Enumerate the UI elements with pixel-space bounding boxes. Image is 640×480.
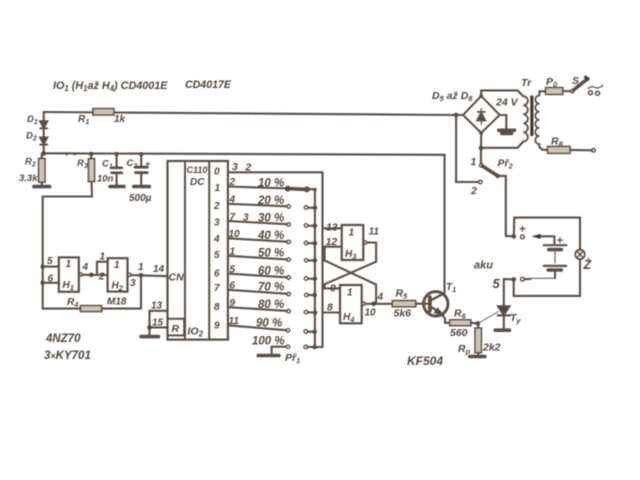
svg-text:C110: C110 bbox=[187, 165, 208, 175]
wire: top rail from D1 to bridge left bbox=[44, 112, 456, 115]
svg-text:+: + bbox=[519, 224, 526, 236]
svg-text:80 %: 80 % bbox=[258, 299, 284, 311]
svg-text:H4: H4 bbox=[343, 312, 355, 324]
wire row 100% to Pr1 ground bbox=[252, 336, 317, 355]
svg-text:13: 13 bbox=[326, 222, 338, 234]
svg-text:R2: R2 bbox=[25, 157, 36, 169]
node: bridge left junction bbox=[454, 113, 459, 118]
title text IO1 (H1 az H4) CD4001E CD4017E bbox=[53, 79, 232, 93]
wire: emitter to R6 bbox=[443, 316, 450, 323]
svg-text:3: 3 bbox=[214, 218, 220, 229]
wire row 20% bbox=[228, 195, 317, 211]
svg-text:C2: C2 bbox=[127, 158, 138, 170]
switch Pr2 blade bbox=[483, 166, 498, 176]
node: H1 input junction dots bbox=[40, 264, 45, 285]
svg-text:2k2: 2k2 bbox=[482, 342, 501, 354]
svg-text:CD4017E: CD4017E bbox=[185, 79, 232, 91]
resistor R4 with feedback wire bbox=[43, 297, 141, 312]
svg-text:1k: 1k bbox=[114, 114, 126, 125]
battery aku cells bbox=[474, 235, 566, 278]
svg-text:7: 7 bbox=[214, 283, 220, 294]
svg-text:15: 15 bbox=[152, 318, 164, 329]
svg-text:0: 0 bbox=[214, 167, 220, 178]
svg-text:4NZ70: 4NZ70 bbox=[45, 333, 81, 345]
svg-text:R5: R5 bbox=[396, 288, 409, 301]
svg-text:IO2: IO2 bbox=[188, 326, 204, 339]
fuse Po bbox=[546, 76, 571, 94]
resistor R3 bbox=[77, 154, 95, 182]
gate H4 bbox=[340, 285, 365, 324]
svg-text:40 %: 40 % bbox=[257, 230, 284, 242]
IC R box bbox=[168, 319, 185, 336]
ground below R2 bbox=[34, 185, 50, 189]
switch Pr2 contact 1 bbox=[471, 156, 514, 171]
svg-text:12: 12 bbox=[326, 236, 338, 248]
svg-text:Tr: Tr bbox=[521, 77, 532, 89]
resistor R5 5k6 bbox=[392, 288, 424, 320]
svg-text:13: 13 bbox=[151, 301, 163, 312]
svg-text:R1: R1 bbox=[78, 114, 89, 126]
ground below C1 bbox=[110, 185, 124, 189]
svg-text:1: 1 bbox=[66, 259, 72, 270]
IC internal column lines bbox=[185, 161, 209, 340]
wire: left drop to diodes bbox=[43, 112, 45, 153]
svg-text:CN: CN bbox=[169, 272, 185, 284]
wire: main bus rail to T1 collector corner bbox=[44, 153, 445, 292]
battery arrow plug bbox=[532, 234, 555, 244]
svg-text:9: 9 bbox=[214, 321, 220, 332]
svg-text:3: 3 bbox=[232, 161, 238, 173]
svg-text:DC: DC bbox=[190, 177, 205, 188]
svg-text:10 %: 10 % bbox=[258, 178, 284, 190]
svg-text:14: 14 bbox=[153, 264, 165, 275]
wire: bus2 bottom tie bbox=[315, 346, 323, 348]
svg-text:2: 2 bbox=[213, 201, 220, 212]
svg-text:5k6: 5k6 bbox=[394, 308, 412, 320]
ground below Ty bbox=[495, 328, 509, 332]
transformer Tr secondary coil bbox=[535, 96, 539, 145]
bridge rectifier D5 az D8 bbox=[432, 90, 519, 135]
svg-text:4: 4 bbox=[229, 195, 236, 206]
svg-text:24 V: 24 V bbox=[495, 97, 519, 109]
svg-text:5: 5 bbox=[230, 264, 236, 275]
svg-text:6: 6 bbox=[48, 274, 54, 285]
svg-text:500µ: 500µ bbox=[129, 193, 152, 204]
svg-text:Rp: Rp bbox=[458, 343, 471, 356]
svg-text:R3: R3 bbox=[77, 158, 88, 170]
svg-text:30 %: 30 % bbox=[258, 213, 284, 225]
svg-text:H2: H2 bbox=[112, 281, 124, 293]
resistor R6 560 bbox=[450, 308, 478, 340]
svg-text:10: 10 bbox=[365, 308, 377, 319]
svg-text:1: 1 bbox=[471, 156, 477, 168]
ground below C2 bbox=[134, 185, 150, 189]
wire: H3 out cross to H4 pin 9 bbox=[325, 243, 377, 289]
svg-text:5: 5 bbox=[47, 256, 53, 267]
svg-text:2: 2 bbox=[470, 185, 477, 197]
svg-text:3: 3 bbox=[130, 278, 136, 289]
wire row 40% bbox=[228, 229, 317, 246]
svg-text:1: 1 bbox=[230, 247, 236, 258]
svg-text:60 %: 60 % bbox=[258, 265, 284, 277]
ground at 24V bbox=[499, 130, 515, 133]
svg-text:1: 1 bbox=[138, 262, 144, 273]
svg-text:4: 4 bbox=[377, 292, 384, 303]
wire row 70% bbox=[228, 281, 317, 298]
transformer Tr primary coil bbox=[523, 96, 528, 141]
diode D2 bbox=[26, 131, 47, 145]
svg-text:9: 9 bbox=[330, 283, 336, 295]
svg-text:T1: T1 bbox=[446, 282, 456, 294]
svg-text:6: 6 bbox=[214, 269, 220, 280]
svg-text:P0: P0 bbox=[546, 76, 558, 89]
svg-text:9: 9 bbox=[230, 298, 236, 309]
IC text C110 DC bbox=[169, 165, 221, 339]
svg-text:8: 8 bbox=[327, 302, 333, 314]
svg-text:R4: R4 bbox=[67, 297, 79, 309]
IC IO2 outer box bbox=[168, 161, 228, 340]
wire: battery bottom to terminal 5 bbox=[531, 277, 555, 279]
wire: H3 pin 13 from bus2 bbox=[323, 227, 342, 229]
svg-text:1: 1 bbox=[347, 288, 353, 299]
svg-text:4: 4 bbox=[82, 262, 89, 273]
svg-text:3.3k: 3.3k bbox=[19, 173, 38, 184]
wire: secondary bottom to R8 bbox=[539, 144, 547, 150]
capacitor C1 bbox=[97, 154, 122, 186]
wire row 90% bbox=[228, 316, 317, 334]
svg-text:Ty: Ty bbox=[510, 312, 521, 325]
svg-text:50 %: 50 % bbox=[258, 247, 284, 259]
wire row 30% bbox=[228, 212, 317, 228]
ground Pr1 bbox=[258, 352, 300, 365]
diode D1 bbox=[27, 114, 47, 128]
wire: selector bus 1 bbox=[314, 189, 316, 347]
svg-text:20 %: 20 % bbox=[257, 195, 284, 207]
capacitor C2 500u bbox=[127, 154, 152, 204]
wire row 50% bbox=[228, 247, 317, 263]
gate H1 bbox=[47, 256, 82, 292]
wire row 10% with wiper bar bbox=[228, 177, 317, 192]
svg-text:H3: H3 bbox=[345, 249, 357, 261]
wire: H4 pin 8 from bus2 bbox=[323, 311, 341, 313]
svg-text:D2: D2 bbox=[26, 131, 37, 143]
lamp Z bbox=[575, 250, 592, 272]
wire: bridge bottom down to node 1 junction bbox=[480, 133, 482, 163]
node: R6/Rp/gate junction bbox=[476, 321, 481, 326]
svg-text:R6: R6 bbox=[454, 308, 467, 321]
thyristor Ty bbox=[498, 279, 522, 329]
diode symbol inside bridge bbox=[477, 113, 485, 120]
ground for pins 13/15 bbox=[141, 335, 159, 339]
svg-text:C1: C1 bbox=[102, 159, 113, 171]
text KF504 bbox=[407, 354, 443, 368]
wire: H2 out to IC pin 14 (CN) bbox=[131, 275, 168, 276]
node: tie dot bbox=[147, 301, 163, 330]
node: bottom bridge junction bbox=[479, 146, 484, 151]
wire: H1 out to H2 inputs with jog bbox=[82, 262, 107, 275]
wire: H1 pin 6 bbox=[43, 282, 59, 284]
terminal 5 bbox=[493, 276, 531, 291]
node: aku plus junction bbox=[512, 234, 517, 239]
svg-text:D1: D1 bbox=[27, 114, 38, 126]
transformer core bbox=[530, 95, 533, 136]
wire: H3 pin 12 from cross-coupling bbox=[325, 247, 342, 261]
wire: lamp loop top bbox=[514, 218, 580, 250]
wire: gate to thyristor bbox=[480, 312, 499, 323]
svg-text:M18: M18 bbox=[107, 297, 127, 308]
node: H4 output labels 10 4 bbox=[365, 292, 384, 319]
svg-text:560: 560 bbox=[450, 327, 468, 339]
svg-text:90 %: 90 % bbox=[256, 318, 282, 330]
svg-text:70 %: 70 % bbox=[258, 282, 284, 294]
svg-text:1: 1 bbox=[215, 183, 221, 194]
text 4NZ70 bbox=[44, 333, 91, 362]
svg-text:6: 6 bbox=[230, 281, 236, 292]
svg-text:100 %: 100 % bbox=[252, 336, 285, 348]
wire row 80% bbox=[228, 298, 317, 315]
wire: secondary top to fuse Po bbox=[539, 91, 545, 95]
wire row 60% bbox=[228, 264, 317, 281]
mains scribble 6V bbox=[588, 85, 603, 88]
svg-text:D5 až D8: D5 až D8 bbox=[432, 90, 473, 103]
resistor R2 bbox=[19, 153, 45, 186]
wire: feedback drop to R4 row bbox=[140, 275, 142, 308]
svg-text:4: 4 bbox=[213, 234, 220, 245]
wire: terminal 5 to thyristor anode bbox=[504, 278, 514, 280]
svg-text:8: 8 bbox=[214, 302, 220, 313]
svg-text:11: 11 bbox=[369, 227, 380, 238]
wire: bridge right to 24V ground bbox=[500, 115, 507, 129]
node: H2 output junction, labels 3 1 14 bbox=[130, 262, 165, 289]
svg-text:+: + bbox=[145, 159, 151, 169]
svg-text:10n: 10n bbox=[97, 174, 114, 185]
gate H3 bbox=[342, 225, 367, 261]
ground below Rp bbox=[470, 355, 485, 359]
wire: blade to aku plus junction bbox=[498, 176, 514, 237]
wire: H4 out to R5 bbox=[365, 303, 392, 305]
node: bus junction dots bbox=[41, 151, 143, 156]
svg-text:2: 2 bbox=[98, 272, 105, 283]
wire: H4 out cross to H3 pin 12 bbox=[325, 247, 377, 304]
svg-text:1: 1 bbox=[100, 252, 106, 263]
resistor R1 bbox=[78, 109, 126, 126]
svg-text:Př1: Př1 bbox=[285, 352, 300, 365]
wire: pin 15 to ground tie bbox=[150, 326, 168, 328]
wire: lamp loop bottom bbox=[514, 259, 580, 296]
resistor Rp 2k2 bbox=[458, 323, 501, 356]
wire: 13/15 tie vertical to ground bbox=[148, 311, 150, 336]
switch Pr2 contact 2 wire bbox=[456, 115, 482, 197]
node: blade end dot bbox=[496, 174, 500, 178]
svg-text:Př2: Př2 bbox=[498, 158, 514, 171]
wire: pin 13 to ground tie bbox=[150, 310, 168, 312]
svg-text:3: 3 bbox=[243, 213, 249, 224]
svg-text:3×KY701: 3×KY701 bbox=[44, 350, 91, 362]
svg-text:2: 2 bbox=[245, 162, 252, 174]
svg-text:1: 1 bbox=[114, 260, 120, 271]
svg-text:H1: H1 bbox=[63, 280, 74, 292]
svg-text:5: 5 bbox=[493, 276, 501, 291]
terminal plus circle bbox=[519, 224, 526, 239]
wire: R3 bottom to H1 column bbox=[43, 182, 92, 309]
svg-text:KF504: KF504 bbox=[407, 354, 443, 368]
svg-text:R8: R8 bbox=[551, 136, 564, 149]
svg-text:IO1 (H1až H4) CD4001E: IO1 (H1až H4) CD4001E bbox=[53, 80, 168, 93]
svg-text:11: 11 bbox=[229, 316, 240, 327]
svg-text:S: S bbox=[572, 75, 579, 87]
switch S bbox=[571, 75, 603, 95]
wire: junction to bridge left corner bbox=[456, 114, 463, 116]
svg-text:5: 5 bbox=[214, 250, 220, 261]
node: H1 output dot bbox=[82, 252, 106, 283]
wire: bridge top to transformer primary bbox=[481, 90, 523, 96]
svg-text:2: 2 bbox=[229, 177, 236, 188]
wire: H1 pin 5 bbox=[43, 266, 59, 268]
svg-text:10: 10 bbox=[229, 229, 241, 240]
svg-text:+: + bbox=[557, 235, 564, 247]
gate H2 bbox=[108, 258, 131, 292]
wire: row 0 (pins 3 2) to right bus bbox=[228, 172, 323, 347]
svg-text:aku: aku bbox=[474, 260, 493, 272]
wire: junction to primary bottom bbox=[481, 142, 523, 148]
transistor T1 KF504 bbox=[424, 282, 457, 316]
svg-text:7: 7 bbox=[230, 212, 236, 223]
svg-text:Ż: Ż bbox=[583, 257, 593, 272]
svg-text:R: R bbox=[172, 323, 180, 335]
node: H3 output 11 bbox=[369, 227, 380, 238]
svg-text:1: 1 bbox=[349, 228, 355, 239]
resistor R8 bbox=[548, 136, 596, 154]
